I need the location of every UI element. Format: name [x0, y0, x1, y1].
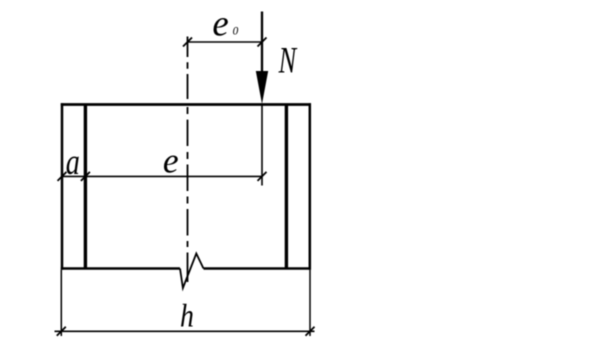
force line N: [261, 12, 263, 79]
svg-text:e: e: [212, 2, 228, 43]
dimension e: line: [62, 175, 262, 177]
column outline: top edge: [61, 103, 311, 106]
break symbol zigzag: [180, 254, 204, 289]
dimension e0: tick right: [258, 38, 267, 47]
svg-text:0: 0: [233, 26, 239, 38]
dimension h: tick right: [306, 327, 315, 336]
force arrowhead: [256, 71, 268, 104]
column outline: bottom edge left segment: [61, 267, 180, 270]
dimension h: tick left: [57, 327, 66, 336]
dimension h: line: [55, 330, 315, 332]
dimension e0: tick left: [183, 38, 192, 47]
dimension e: tick at force point: [258, 172, 267, 181]
dimension e: tick at rebar: [81, 172, 90, 181]
rebar left (thick bar): [84, 105, 87, 269]
column outline: left edge: [61, 103, 64, 270]
centerline (dash-dot axis): [187, 37, 189, 283]
svg-text:a: a: [66, 142, 80, 183]
svg-text:e: e: [163, 141, 179, 181]
h extension line left: [60, 270, 62, 336]
dimension e: tick at left face: [58, 172, 67, 181]
force point extension line: [261, 105, 263, 186]
svg-text:N: N: [278, 40, 298, 80]
column outline: bottom edge right segment: [204, 267, 312, 270]
svg-text:h: h: [180, 297, 194, 334]
h extension line right: [309, 270, 311, 336]
column outline: right edge: [309, 103, 312, 270]
dimension e0: line: [188, 41, 263, 43]
rebar right (thick bar): [285, 105, 288, 269]
